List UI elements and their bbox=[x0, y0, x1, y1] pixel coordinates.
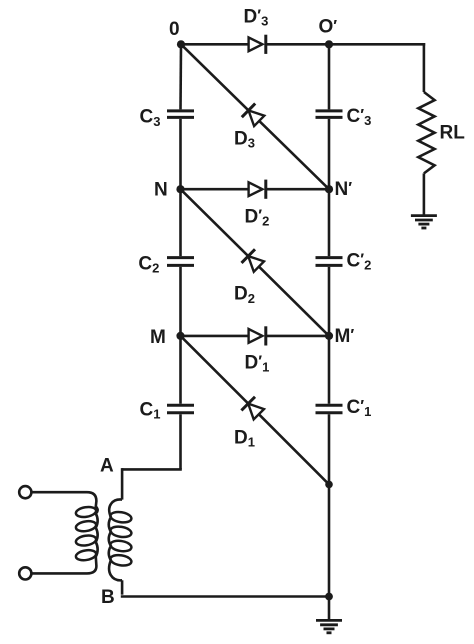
svg-text:C′2: C′2 bbox=[347, 250, 372, 272]
capacitor C'2 bbox=[316, 258, 343, 266]
wire N to D'2 anode bbox=[181, 188, 249, 191]
wire N' to C'2 bbox=[328, 189, 331, 256]
wire bottom node to ground bbox=[328, 597, 331, 620]
diode D'2 bbox=[249, 180, 266, 199]
node 0 junction dot bbox=[177, 40, 185, 48]
svg-text:0: 0 bbox=[169, 19, 180, 40]
wire D'1 cathode to M' bbox=[266, 335, 329, 338]
wire D'3 cathode to O' bbox=[266, 43, 329, 46]
wire node 0 to D'3 anode bbox=[181, 43, 249, 46]
wire N to C2 bbox=[179, 189, 182, 256]
wire A corner horizontal bbox=[122, 468, 182, 471]
svg-text:B: B bbox=[101, 587, 115, 608]
svg-text:N: N bbox=[154, 180, 168, 201]
node O' junction dot bbox=[325, 40, 333, 48]
wire C'1 to diagonal junction bbox=[328, 414, 331, 484]
transformer primary winding spine bbox=[82, 492, 98, 573]
svg-text:O′: O′ bbox=[319, 17, 338, 38]
wire C3 to N bbox=[179, 119, 182, 189]
ground below RL bbox=[411, 216, 437, 228]
node M junction dot bbox=[176, 332, 184, 340]
wire M to C1 bbox=[179, 336, 182, 404]
wire O' to RL branch corner bbox=[329, 43, 425, 46]
capacitor C1 bbox=[167, 405, 194, 413]
wire junction to bottom node bbox=[328, 484, 331, 596]
capacitor C2 bbox=[167, 258, 194, 266]
wire C1 down to A corner bbox=[179, 414, 182, 469]
wire C2 to M bbox=[179, 267, 182, 336]
primary loop 3 bbox=[75, 534, 97, 547]
wire B to bottom node bbox=[121, 595, 329, 598]
svg-text:C′3: C′3 bbox=[347, 106, 372, 128]
svg-text:D′2: D′2 bbox=[245, 206, 270, 228]
wire corner down to RL bbox=[423, 43, 426, 92]
diode D1 on diagonal M-junction bbox=[181, 336, 330, 485]
secondary loop 2 bbox=[110, 525, 133, 538]
svg-text:D′3: D′3 bbox=[244, 6, 269, 28]
wire secondary bottom to B corner bbox=[121, 580, 124, 594]
primary terminal top bbox=[19, 486, 31, 498]
svg-text:D2: D2 bbox=[234, 284, 255, 306]
primary loop 2 bbox=[75, 520, 97, 533]
wire node 0 down to C3 bbox=[179, 44, 182, 109]
svg-text:D3: D3 bbox=[234, 129, 255, 151]
svg-text:D′1: D′1 bbox=[245, 353, 270, 375]
svg-text:M: M bbox=[150, 327, 166, 348]
wire D'2 cathode to N' bbox=[266, 188, 329, 191]
svg-text:C1: C1 bbox=[140, 400, 161, 422]
svg-text:A: A bbox=[100, 455, 114, 476]
svg-text:C3: C3 bbox=[140, 107, 161, 129]
capacitor C'3 bbox=[316, 111, 343, 118]
svg-text:RL: RL bbox=[440, 123, 466, 144]
diode D2 on diagonal N-M' bbox=[181, 189, 330, 336]
node N' junction dot bbox=[325, 185, 333, 193]
svg-text:C2: C2 bbox=[138, 254, 159, 276]
wire C'3 to N' bbox=[328, 119, 331, 189]
ground at bottom node bbox=[316, 620, 342, 632]
primary terminal bottom bbox=[19, 567, 31, 579]
svg-text:D1: D1 bbox=[234, 427, 255, 449]
secondary loop 4 bbox=[110, 554, 133, 567]
capacitor C'1 bbox=[316, 405, 343, 413]
primary loop 1 bbox=[75, 506, 97, 519]
svg-text:N′: N′ bbox=[335, 179, 353, 200]
node N junction dot bbox=[176, 185, 184, 193]
wire top terminal to primary bbox=[32, 491, 82, 494]
diode D3 on diagonal 0-N' bbox=[181, 44, 329, 189]
wire O' down to C'3 bbox=[328, 44, 331, 109]
capacitor C3 bbox=[167, 111, 194, 118]
primary loop 4 bbox=[75, 549, 97, 562]
diode D'1 bbox=[249, 326, 266, 345]
svg-text:M′: M′ bbox=[335, 326, 355, 347]
node M' junction dot bbox=[325, 332, 333, 340]
junction dot diagonal D1 to right rail bbox=[325, 481, 333, 489]
resistor RL bbox=[418, 92, 434, 173]
transformer secondary winding spine bbox=[109, 500, 122, 581]
wire M to D'1 anode bbox=[181, 335, 249, 338]
wire bottom terminal to primary bbox=[32, 572, 82, 575]
secondary loop 3 bbox=[110, 539, 133, 552]
wire M' to C'1 bbox=[328, 336, 331, 404]
wire down to secondary top bbox=[121, 468, 124, 500]
wire C'2 to M' bbox=[328, 267, 331, 336]
diode D'3 bbox=[249, 35, 266, 54]
bottom node junction dot bbox=[325, 593, 333, 601]
wire RL to ground bbox=[423, 173, 426, 215]
svg-text:C′1: C′1 bbox=[347, 397, 372, 419]
secondary loop 1 bbox=[110, 511, 133, 524]
